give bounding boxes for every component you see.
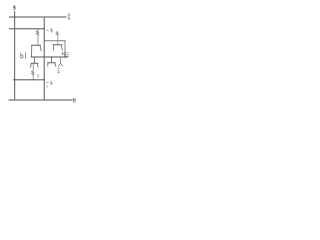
- resistor R3: [32, 64, 34, 80]
- wire feedback horizontal: [14, 79, 45, 81]
- wire main vertical bus: [43, 17, 45, 100]
- resistor R2: [56, 32, 58, 45]
- node label below T3: [58, 69, 60, 74]
- wire second horizontal: [10, 28, 45, 30]
- node label right end of top rail: [68, 14, 70, 19]
- node label right end of bottom rail: [73, 98, 76, 102]
- wire left rail vertical: [14, 12, 16, 101]
- capacitor C1 electrolytic: [64, 41, 66, 58]
- transistor T3: [48, 57, 56, 66]
- wire collector feed horizontal: [44, 40, 65, 42]
- transistor T2: [53, 45, 62, 50]
- resistor R1: [36, 29, 38, 45]
- node label value left: [21, 52, 26, 58]
- transistor T4: [30, 57, 38, 67]
- node label right of capacitor: [67, 53, 69, 58]
- node VCC label top-left: [14, 6, 16, 9]
- transistor T1: [32, 45, 42, 57]
- node plus polarity mark: [62, 53, 64, 55]
- node label right of bus lower: [46, 82, 52, 88]
- wire bottom rail: [9, 99, 72, 101]
- node label right of R3: [37, 75, 39, 78]
- wire branch V to middle rail right: [58, 57, 62, 67]
- wire middle rail horizontal: [31, 56, 67, 58]
- node junction left rail / top rail: [14, 16, 15, 17]
- node label near bus junction: [47, 29, 53, 32]
- wire top rail horizontal: [10, 16, 67, 18]
- node junction dots: [14, 28, 66, 81]
